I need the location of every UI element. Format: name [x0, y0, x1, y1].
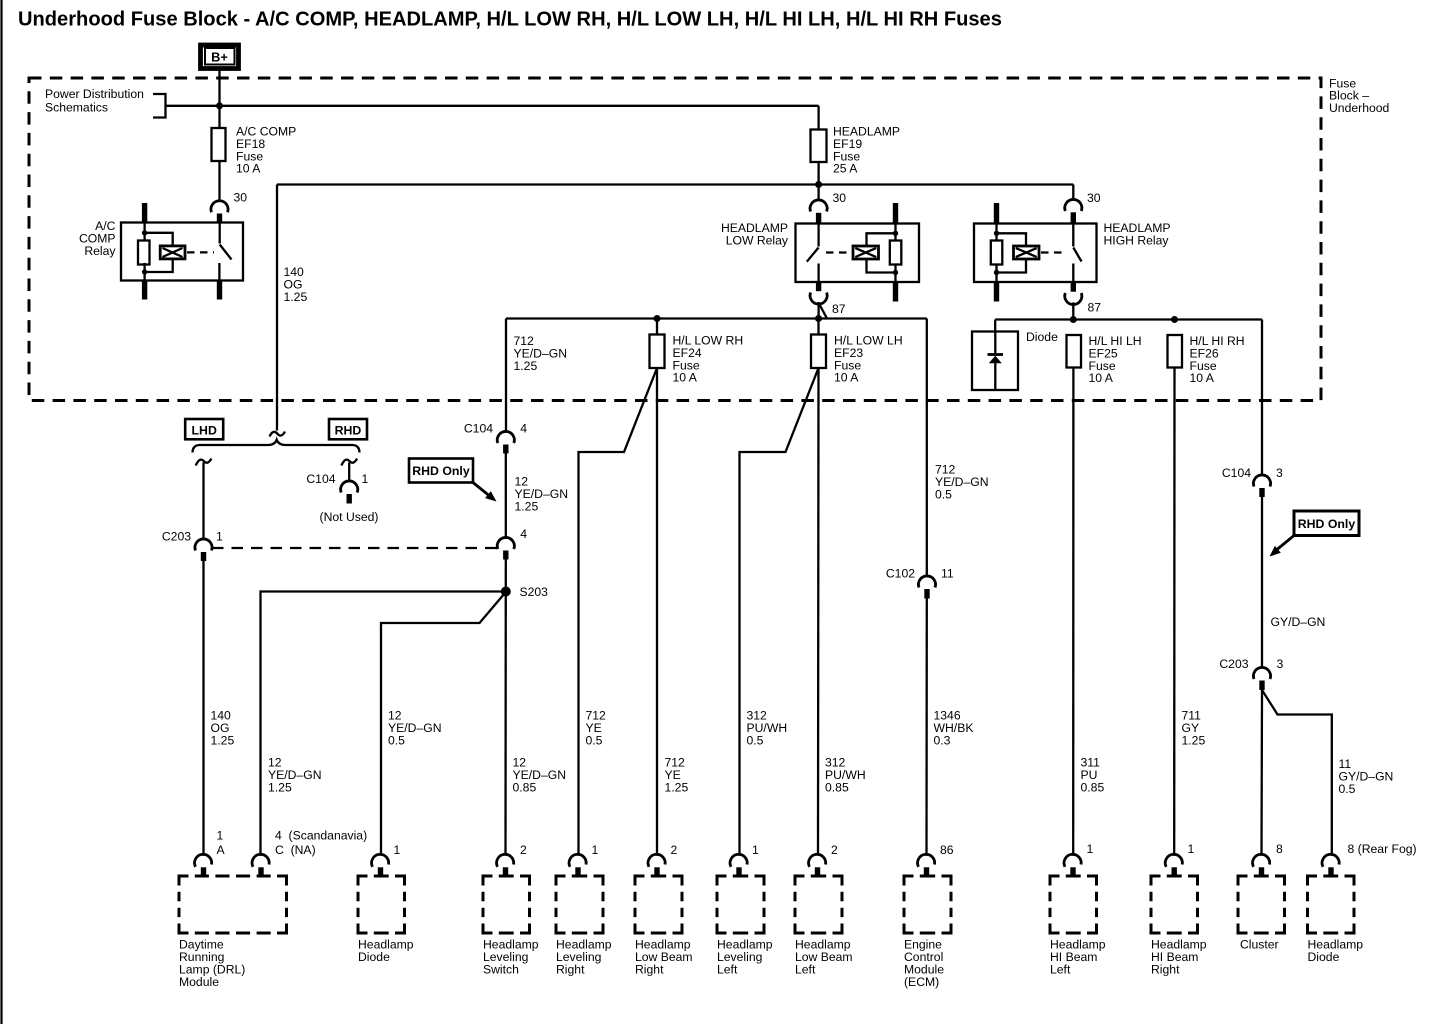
svg-text:1.25: 1.25	[211, 734, 235, 748]
pin 1 headlamp leveling right	[569, 843, 598, 876]
pin 8 rear fog headlamp diode right	[1322, 842, 1417, 876]
svg-text:HIGH Relay: HIGH Relay	[1104, 234, 1170, 248]
svg-text:Right: Right	[635, 962, 664, 976]
wire EF26 output 711 GY 1.25	[1174, 368, 1205, 856]
svg-text:1: 1	[592, 843, 599, 857]
svg-text:1: 1	[752, 843, 759, 857]
svg-text:C104: C104	[464, 422, 493, 436]
svg-text:Underhood: Underhood	[1329, 101, 1389, 115]
node RHD tag	[329, 419, 367, 439]
svg-text:Left: Left	[795, 962, 816, 976]
svg-text:(Not Used): (Not Used)	[320, 510, 379, 524]
svg-text:Power Distribution: Power Distribution	[45, 87, 144, 101]
wire S203 to headlamp diode 12 YE/D-GN 0.5	[381, 592, 506, 856]
wire high bus to C104-3	[1261, 320, 1263, 476]
diode headlamp	[972, 330, 1058, 390]
wire power distribution bus	[166, 105, 819, 107]
pin 1 headlamp diode left	[372, 843, 401, 876]
svg-text:0.3: 0.3	[934, 734, 951, 748]
svg-text:C104: C104	[306, 472, 335, 486]
svg-text:8: 8	[1276, 842, 1283, 856]
label RHD Only right	[1270, 511, 1360, 557]
pin 30 A/C COMP relay	[211, 191, 247, 223]
relay HEADLAMP LOW	[721, 203, 919, 302]
svg-text:Schematics: Schematics	[45, 101, 108, 115]
pin 30 HEADLAMP HIGH relay	[1065, 191, 1101, 224]
svg-text:C102: C102	[886, 567, 915, 581]
svg-text:Cluster: Cluster	[1240, 938, 1279, 952]
svg-text:C203: C203	[1219, 657, 1248, 671]
svg-text:Left: Left	[1050, 962, 1071, 976]
svg-text:Right: Right	[1151, 962, 1180, 976]
wire S203 to DRL 12 YE/D-GN 1.25	[261, 592, 506, 856]
svg-text:10 A: 10 A	[673, 371, 698, 385]
svg-text:0.5: 0.5	[935, 488, 952, 502]
power symbol B+	[201, 45, 239, 69]
break squiggle RHD branch	[341, 459, 357, 466]
wire EF18 to relay 30	[218, 161, 220, 201]
wire RHD branch	[348, 463, 350, 482]
pin 1 headlamp hi beam right	[1165, 842, 1194, 876]
svg-text:A: A	[217, 843, 226, 857]
brace LHD/RHD split	[193, 440, 360, 453]
pin 2 headlamp low beam right	[648, 843, 677, 876]
connector Headlamp Diode right	[1308, 876, 1364, 964]
wire 1346 WH/BK 0.3 to ECM	[927, 599, 974, 856]
fuse EF26 H/L HI RH 10A	[1168, 334, 1245, 385]
svg-text:C203: C203	[162, 530, 191, 544]
svg-text:LOW Relay: LOW Relay	[726, 234, 789, 248]
wire cluster feed	[1260, 690, 1263, 856]
fuse EF18 A/C COMP 10A	[212, 125, 297, 176]
relay A/C COMP	[79, 203, 243, 300]
svg-text:3: 3	[1276, 466, 1283, 480]
svg-text:C104: C104	[1222, 466, 1251, 480]
wire 11 GY/D-GN 0.5 to rear fog diode	[1262, 690, 1393, 856]
svg-text:10 A: 10 A	[236, 162, 261, 176]
svg-text:B+: B+	[211, 50, 228, 65]
connector Headlamp HI Beam Right	[1151, 876, 1207, 976]
connector Engine Control Module ECM	[904, 876, 951, 989]
wire 12 YE/D-GN 1.25 RHD segment	[506, 454, 568, 538]
pin 1 headlamp hi beam left	[1064, 842, 1093, 876]
pin 87 HEADLAMP HIGH relay	[1065, 293, 1102, 315]
svg-text:2: 2	[520, 843, 527, 857]
svg-text:0.5: 0.5	[586, 734, 603, 748]
svg-text:Diode: Diode	[1308, 950, 1340, 964]
connector Daytime Running Lamp DRL Module	[179, 876, 287, 989]
connector Headlamp Leveling Switch	[483, 876, 539, 976]
label Fuse Block - Underhood	[1329, 77, 1389, 115]
svg-text:LHD: LHD	[192, 423, 217, 437]
svg-text:11: 11	[941, 567, 954, 581]
svg-text:86: 86	[940, 843, 954, 857]
svg-text:10 A: 10 A	[1089, 371, 1114, 385]
svg-text:Diode: Diode	[1026, 330, 1058, 344]
pin 1 A DRL module	[195, 829, 226, 876]
junction EF19 output	[815, 181, 822, 188]
svg-text:RHD Only: RHD Only	[1298, 517, 1356, 531]
wire 140 OG vertical	[277, 185, 307, 431]
svg-text:1: 1	[394, 843, 401, 857]
svg-text:Module: Module	[179, 975, 219, 989]
wire EF23 output step 312 PU/WH 0.5	[740, 368, 819, 856]
svg-text:0.5: 0.5	[747, 734, 764, 748]
pin 2 headlamp low beam left	[809, 843, 838, 876]
connector Headlamp Leveling Right	[556, 876, 612, 976]
wire leveling switch feed	[506, 560, 567, 856]
svg-text:1.25: 1.25	[268, 781, 292, 795]
connector C203 pin 1	[162, 530, 223, 562]
junction EF24 top	[654, 315, 661, 322]
svg-text:1: 1	[1087, 842, 1094, 856]
pin 87 HEADLAMP LOW relay	[810, 293, 846, 317]
svg-text:1.25: 1.25	[515, 500, 539, 514]
svg-text:8 (Rear Fog): 8 (Rear Fog)	[1348, 842, 1417, 856]
wire EF19 bottom	[817, 162, 819, 200]
relay HEADLAMP HIGH	[974, 203, 1171, 302]
svg-text:1.25: 1.25	[665, 781, 689, 795]
svg-text:1: 1	[216, 530, 223, 544]
wire ECM sense 712 YE/D-GN 0.5	[927, 319, 989, 577]
wire EF25 output 311 PU 0.85	[1073, 368, 1104, 856]
node LHD tag	[185, 419, 223, 439]
svg-text:Switch: Switch	[483, 962, 519, 976]
svg-text:Left: Left	[717, 962, 738, 976]
wire diode drop	[994, 320, 996, 333]
connector Headlamp HI Beam Left	[1050, 876, 1106, 976]
wire EF24 output step 712 YE 0.5	[579, 368, 658, 856]
wire EF24 output straight 712 YE 1.25	[657, 368, 688, 856]
wire GY/D-GN segment	[1262, 497, 1325, 668]
svg-text:1.25: 1.25	[1182, 734, 1206, 748]
label RHD Only left	[409, 459, 497, 502]
wire 712 YE/D-GN 1.25 to C104-4	[506, 319, 567, 432]
svg-text:S203: S203	[520, 585, 549, 599]
svg-text:3: 3	[1277, 657, 1284, 671]
svg-text:0.5: 0.5	[1339, 782, 1356, 796]
svg-text:30: 30	[1087, 191, 1101, 205]
connector Headlamp Low Beam Right	[635, 876, 693, 976]
svg-text:Right: Right	[556, 962, 585, 976]
wire 140 OG 1.25 to DRL	[204, 561, 235, 856]
svg-text:(ECM): (ECM)	[904, 975, 939, 989]
svg-text:Diode: Diode	[358, 950, 390, 964]
wire low beam bus	[506, 317, 927, 319]
node Power Distribution Schematics bracket	[45, 87, 166, 118]
svg-text:RHD: RHD	[335, 423, 362, 437]
svg-text:1: 1	[217, 829, 224, 843]
connector Cluster	[1238, 876, 1285, 952]
junction EF25 top	[1070, 316, 1077, 323]
connector Headlamp Leveling Left	[717, 876, 773, 976]
wire break squiggle at 140 OG	[270, 432, 286, 437]
pin 2 headlamp leveling switch	[497, 843, 527, 876]
svg-text:2: 2	[671, 843, 678, 857]
wire HIGH 87 drop	[1072, 302, 1074, 319]
svg-text:1.25: 1.25	[514, 359, 538, 373]
fuse EF25 H/L HI LH 10A	[1067, 334, 1142, 385]
connector C104 pin 4	[464, 422, 527, 454]
wire high beam bus	[995, 318, 1262, 320]
wire HIGH relay 30 drop	[1072, 185, 1074, 200]
connector Headlamp Diode left	[358, 876, 414, 964]
fuse block underhood dashed boundary	[29, 78, 1321, 401]
svg-text:1.25: 1.25	[284, 290, 308, 304]
svg-text:0.85: 0.85	[513, 781, 537, 795]
svg-text:30: 30	[234, 191, 248, 205]
wire EF19 top	[817, 106, 819, 130]
svg-text:0.85: 0.85	[825, 781, 849, 795]
svg-text:10 A: 10 A	[834, 371, 859, 385]
svg-text:87: 87	[832, 302, 846, 316]
svg-text:2: 2	[831, 843, 838, 857]
svg-text:1: 1	[362, 472, 369, 486]
svg-text:4: 4	[520, 527, 527, 541]
svg-text:0.85: 0.85	[1081, 781, 1105, 795]
svg-text:4 (Scandanavia): 4 (Scandanavia)	[275, 829, 367, 843]
pin 30 HEADLAMP LOW relay	[810, 191, 846, 224]
wire LOW 87 to bus	[819, 303, 827, 319]
svg-text:30: 30	[833, 191, 847, 205]
fuse EF24 H/L LOW RH 10A	[650, 319, 744, 385]
svg-text:10 A: 10 A	[1190, 371, 1215, 385]
fuse EF19 HEADLAMP 25A	[811, 125, 901, 176]
connector C203 pin 4	[497, 527, 527, 560]
svg-text:C (NA): C (NA)	[275, 843, 316, 857]
junction power bus at B+	[216, 102, 223, 109]
wire LHD branch upper	[202, 463, 204, 540]
wire B+ feed	[218, 69, 220, 129]
wire 140 OG feed horizontal	[277, 183, 1073, 185]
pin 8 cluster	[1253, 842, 1283, 876]
connector C102 pin 11	[886, 567, 954, 599]
svg-text:0.5: 0.5	[388, 734, 405, 748]
node S203 splice	[501, 585, 548, 599]
connector C104 pin 3	[1222, 466, 1283, 497]
svg-text:Underhood Fuse Block - A/C COM: Underhood Fuse Block - A/C COMP, HEADLAM…	[18, 9, 1002, 31]
fuse EF23 H/L LOW LH 10A	[811, 319, 903, 385]
svg-text:1: 1	[1188, 842, 1195, 856]
svg-text:87: 87	[1088, 301, 1102, 315]
svg-text:25 A: 25 A	[833, 162, 858, 176]
junction EF23 top	[815, 315, 822, 322]
break squiggle LHD branch	[196, 459, 212, 466]
wire LOW 87 drop	[817, 302, 819, 319]
wire dashed C203-1 to C203-4	[212, 547, 498, 549]
svg-text:GY/D–GN: GY/D–GN	[1271, 615, 1326, 629]
wire EF23 output straight 312 PU/WH 0.85	[818, 368, 866, 856]
connector Headlamp Low Beam Left	[795, 876, 853, 976]
svg-text:Relay: Relay	[84, 244, 116, 258]
svg-text:RHD Only: RHD Only	[412, 464, 470, 478]
pin 86 ECM	[918, 843, 954, 876]
junction EF26 top	[1171, 316, 1178, 323]
connector C203 pin 3	[1219, 657, 1283, 690]
pin 4 C DRL module	[252, 829, 367, 876]
svg-text:4: 4	[520, 422, 527, 436]
connector C104 pin 1 not used	[306, 472, 378, 524]
pin 1 headlamp leveling left	[730, 843, 759, 876]
